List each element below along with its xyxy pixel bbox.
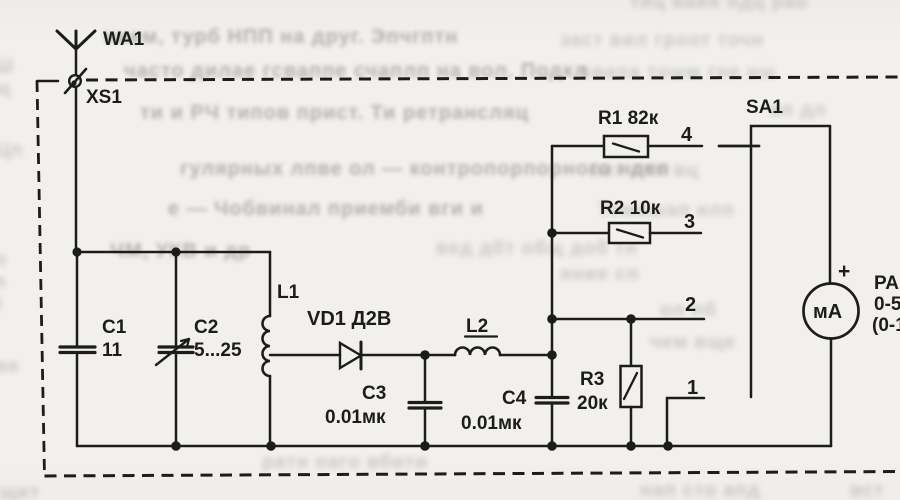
wire: L2 to output bus node	[500, 354, 552, 357]
variable capacitor C2, 5...25 pF	[156, 252, 242, 446]
svg-text:R1 82к: R1 82к	[598, 108, 659, 129]
wire: R1 to switch contact 4	[648, 145, 702, 148]
node: antenna lead joins top rail	[72, 247, 81, 256]
capacitor C3, 0.01мк	[325, 355, 441, 446]
svg-text:(0-1: (0-1	[872, 315, 900, 336]
node: R3 bottom junction	[626, 441, 636, 451]
wire: meter to ground rail	[830, 339, 833, 447]
node: C2 bottom junction	[171, 441, 181, 451]
node: R2 tap on bus	[547, 228, 557, 238]
svg-text:1: 1	[687, 377, 698, 399]
node: R3 tap on line 2	[626, 314, 636, 324]
svg-text:0-50: 0-50	[874, 294, 900, 315]
svg-text:C2: C2	[194, 317, 218, 338]
wire: terminal 1 from ground rail	[667, 398, 704, 446]
svg-text:5...25: 5...25	[194, 340, 242, 361]
wire: vertical output bus	[551, 146, 554, 355]
node: C4 bottom junction	[547, 441, 557, 451]
svg-text:C3: C3	[362, 383, 386, 404]
svg-text:0.01мк: 0.01мк	[461, 413, 522, 434]
inductor L2 (RF choke)	[455, 316, 500, 355]
switch SA1 (band selector bar and frame)	[746, 97, 830, 397]
capacitor C4, 0.01мк	[461, 355, 568, 446]
svg-text:+: +	[838, 260, 850, 283]
wire: from L1 tap to diode VD1	[270, 354, 340, 357]
svg-text:L2: L2	[466, 316, 488, 337]
svg-text:VD1 Д2В: VD1 Д2В	[307, 308, 391, 330]
diode VD1 (Д2В)	[307, 308, 391, 369]
svg-text:WA1: WA1	[103, 29, 145, 50]
faint bleed-through text background	[630, 0, 808, 14]
inductor L1 (tapped coil)	[263, 252, 300, 446]
meter PA1 (microammeter)	[804, 260, 900, 339]
svg-text:C1: C1	[102, 317, 127, 338]
wire: antenna lead from WA1 through XS1 down to tank circuit	[75, 49, 78, 252]
svg-text:11: 11	[102, 340, 123, 361]
svg-text:0.01мк: 0.01мк	[325, 407, 386, 428]
svg-text:2: 2	[685, 294, 696, 316]
node: line 2 tap on bus	[547, 314, 557, 324]
svg-text:мА: мА	[813, 301, 842, 323]
node: C3 junction on detector line	[420, 350, 430, 360]
node: C3 bottom junction	[420, 441, 430, 451]
enclosure boundary (dashed box of receiver)	[37, 77, 900, 476]
antenna WA1	[57, 29, 145, 50]
connector XS1 (antenna socket)	[65, 69, 122, 108]
svg-text:L1: L1	[277, 282, 300, 303]
node: C2 top junction	[171, 247, 180, 256]
wire: bus corner to R1	[552, 145, 604, 148]
wire: diode cathode to C3 node and L2	[361, 354, 455, 357]
svg-text:R2 10к: R2 10к	[600, 198, 661, 219]
resistor R2 10к	[600, 198, 661, 243]
wire: bottom ground rail	[77, 445, 831, 448]
node: bus / C4 junction	[547, 350, 557, 360]
svg-text:C4: C4	[502, 388, 527, 409]
node: L1 bottom junction	[266, 441, 276, 451]
wire: top rail of tank circuit	[76, 251, 270, 254]
wire: bus to R2	[552, 232, 609, 235]
svg-text:3: 3	[684, 211, 695, 233]
wire: bus to switch contact 2	[552, 318, 704, 321]
svg-text:PA1: PA1	[874, 273, 900, 294]
svg-text:4: 4	[681, 124, 693, 146]
node: terminal-1 bottom junction	[663, 441, 673, 451]
svg-text:XS1: XS1	[86, 87, 122, 108]
wire: R2 to switch contact 3	[650, 232, 701, 235]
svg-text:20к: 20к	[577, 393, 608, 414]
capacitor C1, 11 pF	[60, 252, 127, 446]
switch SA1 wiper contact at position 4	[719, 145, 759, 148]
wire: SA1 to meter plus terminal	[829, 126, 832, 284]
resistor R3 20к	[577, 319, 642, 446]
svg-text:R3: R3	[580, 369, 604, 390]
resistor R1 82к	[598, 108, 659, 157]
svg-text:SA1: SA1	[746, 97, 783, 118]
